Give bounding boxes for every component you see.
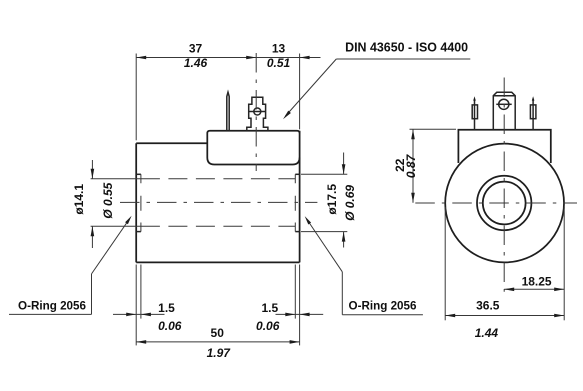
ext line outer left	[135, 265, 137, 346]
terminal slot line	[249, 111, 266, 113]
extension line	[410, 128, 457, 130]
svg-text:Ø 0.69: Ø 0.69	[343, 185, 357, 221]
housing top edge	[207, 131, 299, 158]
leader line	[286, 59, 337, 116]
left pin front	[472, 96, 477, 130]
arrow stem top	[91, 160, 93, 179]
svg-text:O-Ring 2056: O-Ring 2056	[18, 299, 86, 313]
vertical centerline right view	[503, 78, 505, 292]
leader arrowhead	[283, 111, 291, 120]
svg-text:0.51: 0.51	[267, 56, 291, 70]
groove tick top-right	[295, 173, 299, 175]
svg-text:1.46: 1.46	[184, 56, 208, 70]
bore hidden line top	[141, 178, 295, 180]
leader diagonal	[307, 220, 342, 272]
ext line inner right	[294, 265, 296, 319]
dim line	[412, 129, 414, 203]
svg-text:37: 37	[189, 41, 203, 55]
leader vertical	[341, 272, 343, 315]
inner ring inner circle	[483, 182, 526, 225]
svg-text:18.25: 18.25	[522, 275, 552, 289]
terminal screw slot	[496, 103, 511, 105]
leader arrowhead	[125, 216, 132, 224]
svg-text:13: 13	[272, 41, 286, 55]
bore hidden line bottom	[141, 225, 295, 227]
extension line left	[135, 54, 137, 141]
connector base rectangle	[458, 130, 550, 163]
extension line bottom	[91, 225, 141, 227]
ext line inner left	[140, 265, 142, 319]
dim line 50	[136, 341, 299, 343]
svg-text:1.97: 1.97	[207, 346, 232, 360]
coil body outline	[136, 131, 299, 263]
arrow stem bottom	[343, 232, 345, 248]
groove step dashed right	[294, 174, 296, 231]
body bottom edge	[136, 261, 299, 263]
front terminal (center)	[493, 92, 515, 130]
terminal screw circle	[254, 108, 261, 115]
svg-text:0.06: 0.06	[158, 319, 182, 333]
svg-text:1.5: 1.5	[158, 301, 175, 315]
right pin front	[530, 96, 536, 130]
dim line	[445, 315, 564, 317]
svg-text:36.5: 36.5	[476, 299, 500, 313]
body left edge	[135, 143, 137, 262]
terminal screw circle front	[499, 99, 509, 109]
arrow stem top	[343, 153, 345, 175]
spade pin (side view)	[227, 92, 229, 131]
horizontal centerline of bore	[120, 201, 317, 203]
extension line right	[299, 54, 301, 130]
dim line 1.5 right	[276, 313, 324, 315]
leader underline	[9, 313, 92, 315]
svg-text:Ø 0.55: Ø 0.55	[101, 182, 115, 218]
leader diagonal	[92, 219, 130, 274]
extension line top	[301, 173, 347, 175]
svg-text:ø14.1: ø14.1	[72, 184, 86, 215]
body top edge	[136, 142, 207, 144]
dim line	[504, 288, 564, 290]
screw terminal profile	[247, 97, 268, 130]
svg-text:1.5: 1.5	[261, 301, 278, 315]
svg-text:50: 50	[211, 326, 225, 340]
svg-text:DIN 43650 - ISO 4400: DIN 43650 - ISO 4400	[345, 40, 468, 55]
label underline	[336, 58, 470, 60]
leader vertical	[91, 274, 93, 315]
dimension line	[136, 57, 320, 59]
connector housing (rounded)	[207, 131, 299, 165]
groove step dashed left	[140, 174, 142, 231]
svg-text:ø17.5: ø17.5	[325, 184, 339, 215]
groove tick top-left	[136, 173, 141, 175]
arrow stem bottom	[91, 226, 93, 248]
ext line outer right	[299, 265, 301, 346]
inner ring outer circle	[477, 176, 531, 230]
coil outer circle	[445, 144, 564, 263]
ext line left	[444, 207, 446, 320]
extension line bottom	[301, 231, 347, 233]
dim line 1.5 left	[113, 313, 165, 315]
svg-text:0.06: 0.06	[256, 319, 280, 333]
leader underline	[342, 314, 423, 316]
horizontal centerline right view	[415, 202, 577, 204]
extension line top	[91, 178, 141, 180]
ext line right (shared with 36.5)	[563, 207, 565, 320]
terminal top inner line	[493, 95, 515, 97]
groove tick bottom-left	[136, 231, 141, 233]
groove tick bottom-right	[295, 231, 299, 233]
body right edge	[299, 131, 301, 263]
leader arrowhead	[305, 216, 311, 224]
vertical centerline of connector	[255, 53, 257, 171]
svg-text:1.44: 1.44	[475, 326, 499, 340]
arrowheads	[136, 56, 146, 60]
svg-text:O-Ring 2056: O-Ring 2056	[349, 298, 417, 312]
svg-text:0.87: 0.87	[404, 153, 418, 178]
housing bottom edge	[207, 158, 299, 165]
